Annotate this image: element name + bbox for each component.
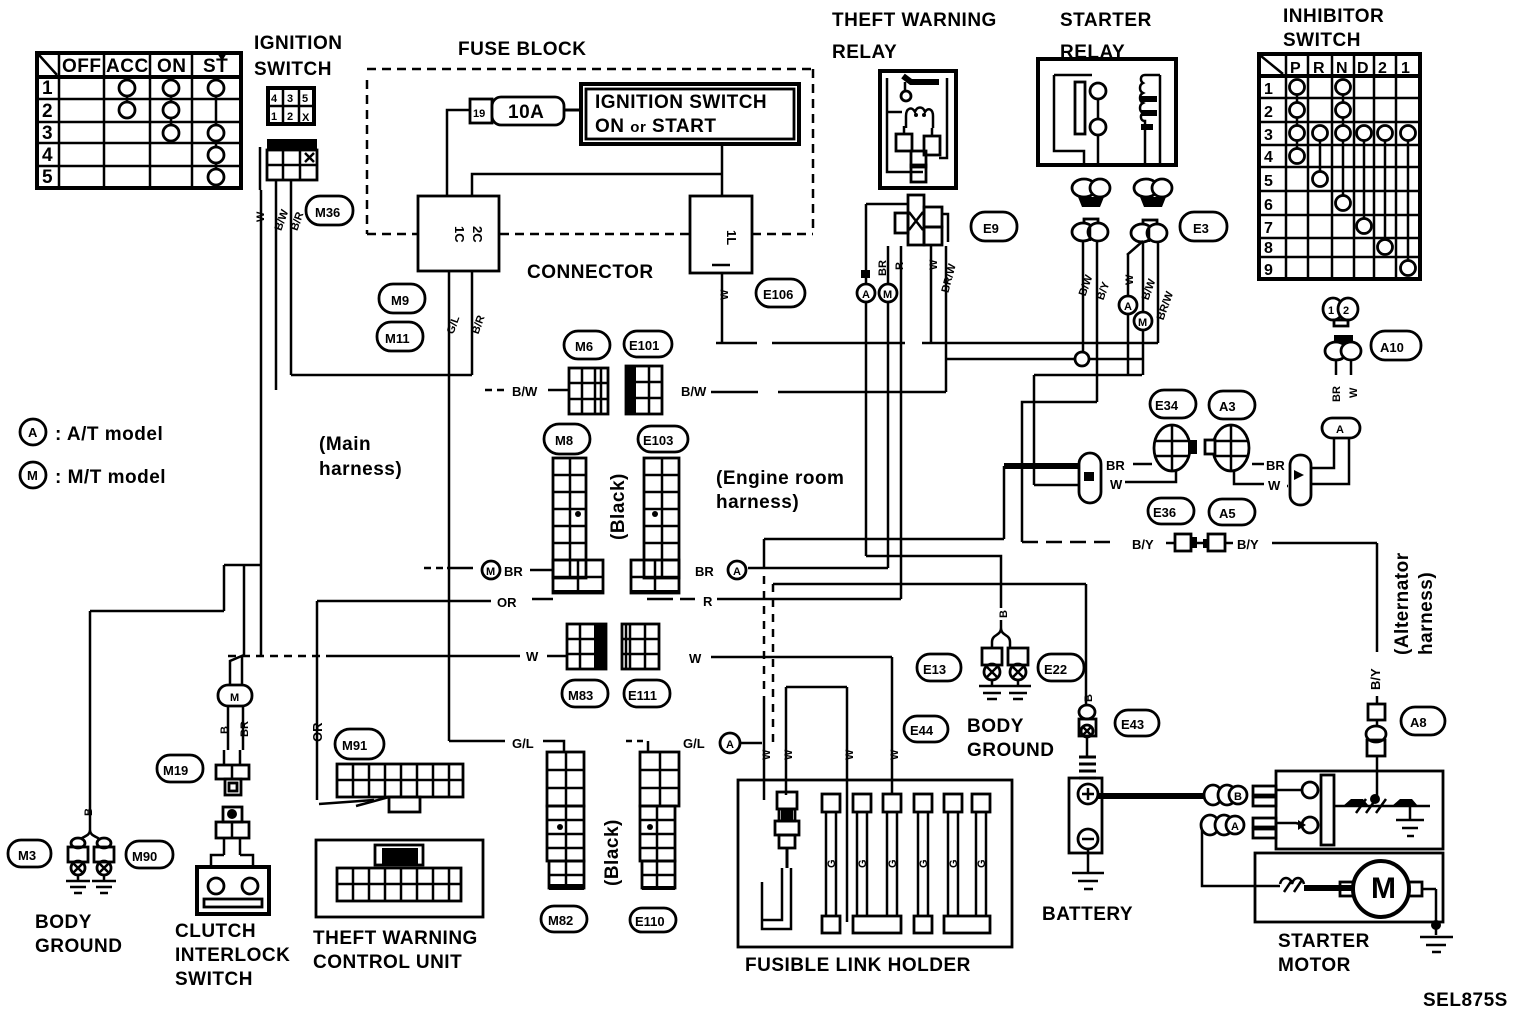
wire thick to M pill BR [1004, 463, 1080, 469]
svg-text:G: G [857, 859, 869, 868]
svg-text:SWITCH: SWITCH [254, 59, 332, 80]
svg-text:3: 3 [1264, 127, 1273, 144]
oval M19 [157, 755, 203, 782]
ground terminal M3 [66, 838, 90, 893]
wire label B/W left of M6 [485, 384, 569, 399]
fusible link 1 [822, 794, 840, 933]
svg-text:(Alternator: (Alternator [1392, 552, 1413, 655]
A/T pill connector inhibitor [1310, 418, 1360, 484]
fusible link 3 [853, 794, 901, 933]
svg-text:R: R [894, 262, 906, 270]
oval E110 [630, 908, 676, 932]
svg-text:A: A [1124, 301, 1132, 313]
wire B/W starter relay to node [1077, 241, 1096, 355]
svg-text:E34: E34 [1155, 398, 1179, 413]
svg-text:CLUTCH: CLUTCH [175, 921, 256, 942]
svg-text:W: W [1268, 478, 1281, 493]
starter relay connector E3 left [1072, 219, 1108, 241]
svg-text:W: W [783, 749, 795, 760]
svg-text:M91: M91 [342, 738, 367, 753]
wire label B/W right of E101 [681, 384, 707, 399]
svg-text:W: W [1348, 387, 1360, 398]
svg-text:P: P [1290, 60, 1301, 77]
svg-text:(Engine room: (Engine room [716, 468, 844, 489]
svg-text:A10: A10 [1380, 340, 1404, 355]
oval M82 [541, 906, 587, 932]
svg-text:THEFT WARNING: THEFT WARNING [832, 10, 997, 31]
svg-text:(Black): (Black) [602, 819, 623, 886]
svg-text:W: W [928, 259, 940, 270]
ground terminal E22 [1005, 648, 1031, 699]
svg-text:B: B [219, 726, 231, 734]
wire W net fusible links [786, 657, 892, 922]
svg-text:D: D [1357, 60, 1369, 77]
wire BR/W starter relay right [1155, 242, 1177, 343]
wire ignition box to 1L and 2C [472, 144, 722, 196]
svg-text:harness): harness) [716, 492, 799, 513]
connector grid E110 [640, 752, 679, 888]
wire W right of E111 [689, 651, 892, 666]
svg-text:M: M [1371, 872, 1396, 905]
oval E34 [1150, 390, 1196, 418]
svg-text:A: A [733, 566, 741, 578]
wire W horizontal from ignition [228, 649, 567, 664]
M/T pill connector engine room [1079, 453, 1101, 503]
starter relay terminals upper [1072, 179, 1172, 207]
wire B/Y row [1022, 534, 1377, 652]
svg-text:10A: 10A [508, 102, 544, 123]
connector grid M8 [553, 458, 603, 593]
wire BR from E9 with M/T marker [748, 246, 897, 568]
wire BR from E103 with A/T marker [695, 561, 746, 579]
oval E22 [1038, 654, 1084, 681]
oval M6 [564, 331, 610, 359]
svg-text:SWITCH: SWITCH [1283, 30, 1361, 51]
svg-text:4: 4 [271, 93, 278, 105]
inhibitor switch pin connector [1323, 298, 1358, 326]
wire G/L from connector 1C [448, 271, 451, 741]
round connector E34 [1125, 425, 1197, 482]
fusible link 4 [914, 794, 932, 933]
svg-text:E103: E103 [643, 433, 673, 448]
wire B theft relay to body ground E13 E22 [866, 556, 1001, 608]
svg-text:1: 1 [1264, 81, 1273, 98]
svg-text:M: M [27, 468, 38, 483]
svg-text:W: W [844, 749, 856, 760]
wire B/W from ignition switch [275, 180, 278, 390]
svg-text:E13: E13 [923, 662, 946, 677]
svg-text:(Main: (Main [319, 434, 371, 455]
svg-text:2: 2 [287, 111, 293, 123]
svg-text:M: M [1138, 317, 1147, 329]
ignition switch on/start box [581, 84, 799, 144]
oval M11 [377, 322, 423, 351]
svg-text:INTERLOCK: INTERLOCK [175, 945, 290, 966]
oval E36 [1148, 498, 1194, 524]
wire G/L E110 A/T marker [626, 733, 762, 753]
oval M83 [562, 680, 608, 707]
svg-text:M: M [230, 692, 239, 704]
svg-text:(Black): (Black) [608, 473, 629, 540]
svg-text:B/Y: B/Y [1237, 537, 1259, 552]
svg-text:BR: BR [239, 721, 251, 737]
connector grid M6 [569, 368, 608, 414]
svg-text:SWITCH: SWITCH [175, 969, 253, 990]
connector grid E111 [622, 624, 659, 669]
legend A/T model [20, 419, 163, 445]
ignition switch position table [37, 53, 241, 188]
oval A8 [1401, 707, 1445, 735]
oval E9 [971, 212, 1017, 241]
wire W from ignition switch [260, 190, 263, 656]
oval E106 [756, 279, 805, 307]
svg-text:M3: M3 [18, 848, 36, 863]
svg-text:B/Y: B/Y [1368, 668, 1383, 690]
oval A5 [1209, 499, 1255, 525]
svg-text:M8: M8 [555, 433, 573, 448]
svg-text:2: 2 [1378, 60, 1387, 77]
svg-text:1: 1 [271, 111, 277, 123]
svg-text:W: W [889, 749, 901, 760]
connector grid E101 black edge [626, 366, 662, 414]
svg-text:M19: M19 [163, 763, 188, 778]
svg-text:A: A [862, 289, 870, 301]
battery BT1 [1069, 736, 1104, 889]
svg-text:2: 2 [1264, 104, 1273, 121]
wire R horizontal lower [773, 583, 1086, 586]
connector grid M83 [567, 624, 606, 669]
svg-text:3: 3 [287, 93, 293, 105]
wire BR to M8 with M/T marker [424, 561, 553, 579]
svg-text:7: 7 [1264, 220, 1273, 237]
battery cable thick [1098, 793, 1206, 799]
wire 1L W to starter relay BR/W [716, 342, 1158, 345]
svg-text:: A/T model: : A/T model [55, 424, 163, 445]
wire G/L to M82 [449, 736, 564, 752]
svg-text:1: 1 [42, 78, 53, 99]
svg-text:E22: E22 [1044, 662, 1067, 677]
node junction circle [946, 352, 1143, 366]
oval A10 [1371, 331, 1421, 360]
wire B/Y starter relay [1095, 241, 1113, 402]
svg-text:ST: ST [203, 56, 228, 77]
svg-text:A: A [1336, 424, 1344, 436]
connector pair inside holder [775, 792, 799, 848]
svg-text:1: 1 [1328, 305, 1334, 317]
wire BR/W from E9 [940, 246, 959, 359]
oval E111 [624, 680, 670, 707]
wire W A3 area horizontal [1034, 374, 1142, 377]
svg-text:M83: M83 [568, 688, 593, 703]
svg-text:E106: E106 [763, 287, 793, 302]
oval E43 [1115, 710, 1159, 736]
svg-text:A: A [1231, 821, 1239, 833]
svg-text:OR: OR [497, 595, 517, 610]
svg-text:W: W [526, 649, 539, 664]
body ground split right [992, 620, 1010, 648]
svg-text:BR: BR [695, 564, 714, 579]
M/T pill connector clutch [218, 685, 252, 750]
svg-text:2C: 2C [470, 226, 485, 243]
svg-text:BR: BR [504, 564, 523, 579]
svg-text:5: 5 [1264, 173, 1273, 190]
theft warning relay connector E9 [866, 195, 948, 287]
clutch connector M19 [216, 750, 249, 795]
fuse block dashed outline [367, 69, 813, 234]
wire W down to M pill [1034, 375, 1079, 485]
svg-text:E101: E101 [629, 338, 659, 353]
svg-text:E44: E44 [910, 723, 934, 738]
starter relay connector E3 right [1127, 220, 1167, 255]
clutch interlock switch SW1 [197, 838, 269, 914]
ignition switch connector M36 [260, 139, 317, 190]
oval M3 [8, 840, 51, 867]
oval E44 [904, 716, 948, 742]
svg-text:OFF: OFF [62, 56, 102, 77]
svg-text:E9: E9 [983, 221, 999, 236]
wire fuse to ignition box [564, 109, 581, 112]
wire to battery connector [1085, 584, 1088, 706]
svg-text:CONNECTOR: CONNECTOR [527, 262, 654, 283]
svg-text:2: 2 [1343, 305, 1349, 317]
svg-text:E36: E36 [1153, 505, 1176, 520]
svg-text:B: B [998, 610, 1010, 618]
svg-text:E110: E110 [635, 914, 665, 929]
svg-text:OR: OR [310, 722, 325, 742]
starter motor box [1255, 853, 1443, 922]
wire to M pill clutch [230, 565, 244, 685]
wire W from connector 1L [712, 265, 730, 343]
svg-text:3: 3 [42, 123, 53, 144]
svg-text:BR: BR [1331, 386, 1343, 402]
oval A3 [1209, 391, 1255, 419]
oval M90 [126, 841, 173, 868]
svg-text:: M/T model: : M/T model [55, 467, 166, 488]
oval M91 [335, 729, 384, 759]
svg-text:6: 6 [1264, 197, 1273, 214]
svg-text:GROUND: GROUND [967, 740, 1054, 761]
svg-text:E111: E111 [628, 688, 657, 703]
A/T pill connector engine right [1287, 455, 1311, 505]
svg-text:A: A [28, 425, 38, 440]
svg-text:GROUND: GROUND [35, 936, 122, 957]
svg-text:B: B [1234, 791, 1242, 803]
svg-text:A5: A5 [1219, 506, 1236, 521]
svg-text:8: 8 [1264, 240, 1273, 257]
connector box 1L [690, 196, 752, 273]
connector M91 theft warning control unit top [319, 764, 463, 812]
svg-text:CONTROL UNIT: CONTROL UNIT [313, 952, 462, 973]
svg-text:BATTERY: BATTERY [1042, 904, 1133, 925]
svg-text:W: W [1124, 274, 1136, 285]
ignition switch pinout connector [268, 88, 314, 124]
oval M9 [379, 284, 425, 313]
L wire inside holder [762, 848, 791, 929]
svg-text:W: W [761, 749, 773, 760]
svg-text:R: R [1313, 60, 1325, 77]
svg-text:A8: A8 [1410, 715, 1427, 730]
svg-text:W: W [719, 289, 731, 300]
svg-text:BODY: BODY [35, 912, 92, 933]
svg-text:A3: A3 [1219, 399, 1236, 414]
wire B/Y to starter motor [1366, 668, 1386, 796]
svg-text:IGNITION: IGNITION [254, 33, 342, 54]
battery connector [1079, 705, 1096, 737]
oval E3 [1180, 212, 1227, 241]
svg-text:G: G [976, 859, 988, 868]
wire B/R from connector 2C [291, 271, 472, 375]
svg-text:1L: 1L [724, 230, 739, 245]
cable connector pair lower [1201, 815, 1256, 886]
svg-text:B: B [83, 808, 95, 816]
svg-text:E3: E3 [1193, 221, 1209, 236]
wire B from E9 with A/T marker [857, 270, 875, 556]
svg-text:G/L: G/L [683, 736, 705, 751]
svg-text:1: 1 [1401, 60, 1410, 77]
round connector A3 [1205, 425, 1264, 484]
svg-text:THEFT WARNING: THEFT WARNING [313, 928, 478, 949]
fuse 19 10A [470, 97, 564, 125]
ground terminal E13 [979, 648, 1005, 699]
connector grid M82 [547, 752, 584, 890]
svg-text:M11: M11 [385, 331, 410, 346]
oval E13 [917, 654, 961, 681]
svg-text:M36: M36 [315, 205, 340, 220]
svg-text:harness): harness) [1416, 572, 1437, 655]
svg-text:ON: ON [157, 56, 187, 77]
svg-text:BR: BR [877, 260, 889, 276]
svg-text:X: X [302, 112, 310, 124]
svg-text:ACC: ACC [106, 56, 149, 77]
svg-text:R: R [703, 594, 713, 609]
fusible link 2 [853, 794, 871, 916]
svg-text:G: G [826, 859, 838, 868]
svg-text:B: B [1083, 694, 1095, 702]
oval M36 [306, 196, 353, 225]
svg-text:B/W: B/W [512, 384, 538, 399]
fusible link 5 [944, 794, 962, 916]
svg-text:BR: BR [1106, 458, 1125, 473]
svg-text:SEL875S: SEL875S [1423, 990, 1508, 1011]
connector grid E103 [631, 458, 679, 593]
svg-text:M82: M82 [548, 913, 573, 928]
svg-text:1C: 1C [452, 226, 467, 243]
svg-text:FUSIBLE LINK HOLDER: FUSIBLE LINK HOLDER [745, 955, 971, 976]
svg-text:STARTER: STARTER [1278, 931, 1370, 952]
svg-text:5: 5 [42, 167, 53, 188]
svg-text:N: N [1336, 60, 1348, 77]
theft warning control unit box [316, 840, 483, 917]
wire W from E9 [928, 246, 940, 343]
oval E101 [624, 331, 672, 357]
svg-text:INHIBITOR: INHIBITOR [1283, 6, 1384, 27]
svg-text:19: 19 [473, 108, 485, 120]
svg-text:2: 2 [42, 101, 53, 122]
oval M8 [544, 424, 590, 454]
wire fuse to 1C [447, 110, 470, 196]
cable connector pair B [1204, 785, 1247, 805]
svg-text:B/W: B/W [681, 384, 707, 399]
wire B/W starter relay right with M/T marker [1134, 242, 1159, 375]
svg-text:BODY: BODY [967, 716, 1024, 737]
svg-text:STARTER: STARTER [1060, 10, 1152, 31]
svg-text:M6: M6 [575, 339, 593, 354]
wire R from E103 [647, 594, 713, 609]
wire OR from M8 [317, 595, 553, 800]
wire W branch to clutch [90, 565, 261, 830]
svg-text:IGNITION SWITCH: IGNITION SWITCH [595, 92, 767, 113]
svg-text:5: 5 [302, 93, 308, 105]
fusible link 6 [944, 794, 990, 933]
svg-text:4: 4 [42, 145, 53, 166]
oval E103 [638, 426, 688, 452]
svg-text:M90: M90 [132, 849, 157, 864]
svg-text:W: W [689, 651, 702, 666]
svg-text:G: G [887, 859, 899, 868]
svg-text:RELAY: RELAY [832, 42, 897, 63]
svg-text:FUSE BLOCK: FUSE BLOCK [458, 39, 587, 60]
svg-text:M: M [883, 289, 892, 301]
svg-text:G: G [948, 859, 960, 868]
body ground split left [78, 830, 102, 846]
starter relay U2 [1038, 59, 1176, 165]
starter motor solenoid box [1253, 771, 1443, 849]
theft warning relay U1 [880, 71, 956, 188]
svg-text:G/L: G/L [512, 736, 534, 751]
wire B/Y corner down [1022, 402, 1097, 542]
svg-text:B/Y: B/Y [1132, 537, 1154, 552]
svg-text:9: 9 [1264, 262, 1273, 279]
svg-text:BR: BR [1266, 458, 1285, 473]
wire B/R from ignition switch [290, 180, 293, 375]
connector box 1C 2C [418, 196, 499, 271]
wire B/W E101 to node [711, 359, 946, 392]
wire horizontal to fusible link 1 [764, 538, 1004, 541]
svg-text:M9: M9 [391, 293, 409, 308]
ground terminal M90 [92, 838, 116, 893]
svg-text:A: A [726, 739, 734, 751]
svg-text:E43: E43 [1121, 717, 1144, 732]
starter motor ground [1420, 920, 1453, 952]
wire R from E9 [717, 246, 906, 599]
svg-text:G: G [918, 859, 930, 868]
svg-text:M: M [486, 566, 495, 578]
svg-text:harness): harness) [319, 459, 402, 480]
svg-text:ON or START: ON or START [595, 116, 716, 137]
wire W starter relay with A/T marker [1119, 255, 1137, 375]
svg-text:W: W [1110, 477, 1123, 492]
inhibitor connector bullet pair [1325, 335, 1361, 375]
svg-text:4: 4 [1264, 149, 1273, 166]
clutch connector lower [216, 807, 249, 838]
legend M/T model [20, 462, 166, 488]
inhibitor switch table [1259, 54, 1420, 279]
fusible link holder box [738, 780, 1012, 947]
svg-text:MOTOR: MOTOR [1278, 955, 1351, 976]
